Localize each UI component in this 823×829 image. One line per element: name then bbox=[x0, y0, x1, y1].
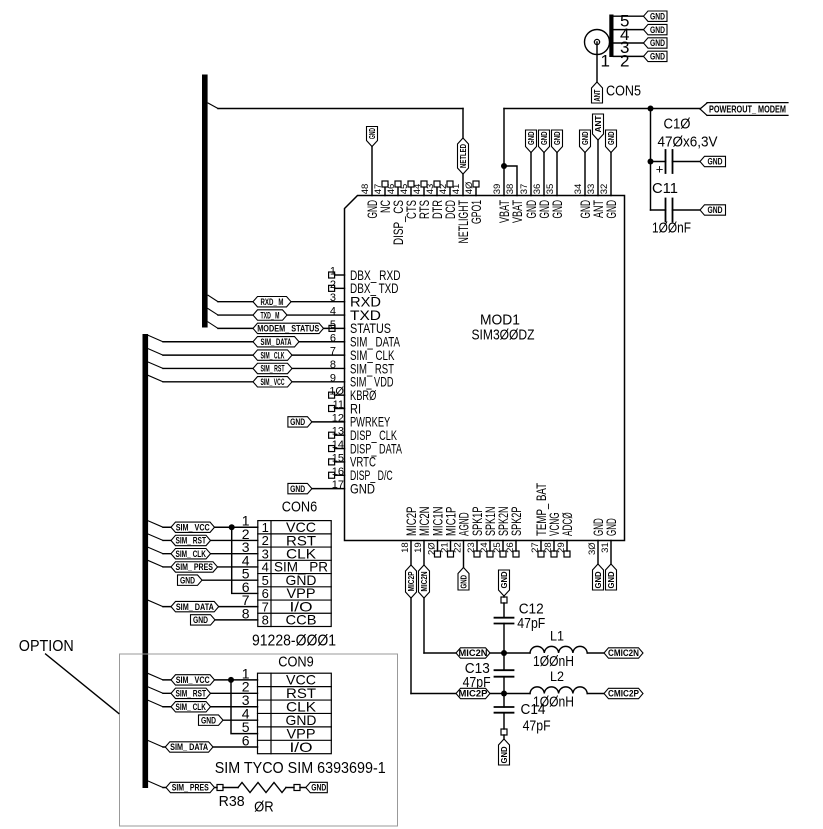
wire CON5 shield bbox=[614, 29, 644, 31]
svg-text:39: 39 bbox=[492, 184, 503, 195]
pin 18 MIC2P bbox=[400, 507, 419, 553]
bus entry RXD_M bbox=[208, 295, 218, 302]
wire VBAT pin 39 bbox=[503, 109, 505, 196]
svg-text:SIM_ RST: SIM_ RST bbox=[176, 689, 207, 699]
pin 25 SPK2N bbox=[492, 507, 511, 558]
inductor L1 bbox=[530, 646, 587, 653]
net flag SIM_PRES R38 bbox=[166, 782, 215, 792]
junction VBAT bbox=[501, 163, 507, 169]
net flag SIM_DATA CON6 bbox=[171, 601, 219, 611]
pin 41 NETLIGHT bbox=[451, 184, 471, 244]
svg-text:47pF: 47pF bbox=[523, 718, 551, 735]
bus entry SIM_CLK bbox=[148, 349, 163, 356]
bus entry CON6 pin4 bbox=[148, 560, 163, 567]
pin 33 ANT bbox=[586, 184, 606, 218]
svg-text:L2: L2 bbox=[550, 668, 564, 684]
power flag GND CON5 bbox=[644, 24, 668, 34]
net flag NETLED bbox=[458, 138, 469, 174]
net flag RXD_M bbox=[253, 297, 291, 307]
svg-text:1ØØnF: 1ØØnF bbox=[652, 220, 691, 237]
svg-text:C14: C14 bbox=[521, 701, 546, 718]
wire CON5 pin1 to ANT bbox=[596, 42, 598, 82]
inductor L2 bbox=[530, 687, 587, 694]
power flag GND pin 30 bbox=[593, 564, 604, 590]
svg-text:SIM_ VCC: SIM_ VCC bbox=[261, 377, 285, 387]
power flag GND bbox=[552, 130, 563, 153]
wire GND pin 17 bbox=[312, 488, 345, 490]
svg-text:GND: GND bbox=[350, 480, 375, 496]
svg-text:14: 14 bbox=[332, 439, 344, 451]
svg-text:GND: GND bbox=[290, 417, 305, 427]
svg-text:GND: GND bbox=[603, 200, 619, 219]
pin 20 MIC1N bbox=[427, 507, 446, 558]
resistor R38 bbox=[238, 783, 286, 793]
capacitor C11 label bbox=[652, 180, 691, 237]
wire CON5 shield bbox=[614, 15, 644, 17]
svg-text:27: 27 bbox=[530, 542, 541, 553]
svg-text:GND: GND bbox=[603, 518, 619, 536]
power flag GND bbox=[580, 130, 591, 153]
svg-text:2: 2 bbox=[620, 52, 629, 71]
pin 23 SPK1P bbox=[466, 507, 485, 558]
wire CON6 pin7 SIM_DATA bbox=[163, 606, 258, 608]
svg-text:4Ø: 4Ø bbox=[464, 181, 475, 194]
wire pin 48 to GND bbox=[371, 147, 373, 196]
svg-text:GND: GND bbox=[650, 11, 665, 21]
junction C10 bbox=[648, 159, 654, 165]
svg-text:SIM_ PRES: SIM_ PRES bbox=[172, 783, 209, 793]
svg-text:GND: GND bbox=[500, 746, 509, 763]
svg-text:29: 29 bbox=[556, 542, 567, 553]
wire NETLED net bbox=[218, 109, 463, 196]
pin 3 RXD bbox=[330, 292, 381, 309]
svg-text:GND: GND bbox=[527, 131, 536, 145]
net flag SIM_VCC bbox=[253, 377, 292, 387]
bus modem signals bbox=[202, 75, 208, 328]
wire SIM_CLK bbox=[163, 354, 345, 356]
svg-text:45: 45 bbox=[399, 184, 410, 195]
svg-text:C1Ø: C1Ø bbox=[664, 116, 691, 133]
wire GND pin bbox=[556, 153, 558, 196]
net flag SIM_DATA CON9 bbox=[165, 742, 213, 752]
wire CON6 pin1 SIM_VCC bbox=[163, 526, 258, 528]
svg-text:GND: GND bbox=[607, 571, 616, 588]
svg-text:R38: R38 bbox=[219, 793, 245, 810]
svg-text:MODEM_ STATUS: MODEM_ STATUS bbox=[257, 324, 319, 334]
svg-text:ADCØ: ADCØ bbox=[559, 512, 575, 536]
net flag SIM_PRES CON6 bbox=[171, 562, 218, 572]
power flag GND CON6 pin5 bbox=[178, 575, 203, 585]
wire VBAT pin 38 branch bbox=[504, 166, 517, 196]
wire R38 left lead bbox=[223, 787, 238, 789]
pin 15 VRTC bbox=[329, 452, 376, 469]
svg-text:13: 13 bbox=[332, 426, 344, 438]
wire CON9 VPP tie bbox=[231, 680, 258, 734]
pin 48 GND bbox=[360, 184, 380, 219]
no-connect square R38 right bbox=[294, 785, 300, 791]
connector CON5 label bbox=[606, 83, 641, 100]
wire L1 to CMIC2N bbox=[587, 652, 604, 654]
svg-text:GND: GND bbox=[650, 38, 665, 48]
wire CON9 pin1 SIM_VCC bbox=[163, 679, 258, 681]
wire pin 22 AGND bbox=[463, 541, 465, 568]
svg-text:2Ø: 2Ø bbox=[427, 542, 438, 555]
svg-text:GND: GND bbox=[708, 205, 723, 215]
svg-text:43: 43 bbox=[425, 184, 436, 195]
svg-text:SIM_ DATA: SIM_ DATA bbox=[170, 742, 208, 752]
pin 31 GND bbox=[600, 518, 619, 553]
net flag ANT CON5 bbox=[592, 82, 603, 103]
net flag SIM_VCC CON9 bbox=[171, 675, 215, 685]
wire CON9 pin3 bbox=[163, 706, 258, 708]
net flag SIM_RST bbox=[253, 363, 292, 373]
svg-text:GPO1: GPO1 bbox=[468, 200, 484, 224]
svg-text:15: 15 bbox=[332, 452, 344, 464]
wire TXD_M bbox=[218, 314, 345, 316]
svg-text:25: 25 bbox=[492, 542, 503, 553]
svg-text:2: 2 bbox=[330, 279, 336, 291]
wire SIM_RST bbox=[163, 367, 345, 369]
connector CON6 part number bbox=[252, 633, 336, 650]
connector CON9 pin table text bbox=[286, 672, 317, 755]
connector CON9 external pin numbers bbox=[242, 665, 250, 748]
svg-text:19: 19 bbox=[413, 542, 424, 553]
power flag GND pin 12 bbox=[288, 417, 312, 427]
wire SIM_DATA bbox=[163, 341, 345, 343]
net flag SIM_CLK CON9 bbox=[171, 702, 211, 712]
connector CON6 body bbox=[258, 521, 331, 627]
wire GND pin bbox=[530, 153, 532, 196]
svg-text:MIC2N: MIC2N bbox=[459, 648, 488, 658]
wire SIM_VCC bbox=[163, 381, 345, 383]
pin 46 DISP_ CS bbox=[386, 181, 406, 245]
svg-text:8: 8 bbox=[262, 613, 269, 628]
pin 6 SIM_ DATA bbox=[330, 332, 401, 349]
capacitor C11 bbox=[651, 199, 701, 222]
pin 24 SPK1N bbox=[479, 507, 498, 558]
svg-text:24: 24 bbox=[479, 542, 490, 553]
svg-text:21: 21 bbox=[440, 542, 451, 553]
net flag CMIC2P bbox=[604, 688, 643, 698]
svg-text:34: 34 bbox=[573, 184, 584, 195]
pin 2 DBX_ TXD bbox=[329, 279, 399, 296]
bus entry SIM_VCC bbox=[148, 375, 163, 382]
svg-text:MIC2P: MIC2P bbox=[459, 689, 488, 699]
svg-text:28: 28 bbox=[543, 542, 554, 553]
wire CON6 pin8 GND bbox=[215, 619, 258, 621]
svg-text:1: 1 bbox=[330, 266, 336, 278]
svg-text:47pF: 47pF bbox=[517, 615, 545, 632]
pin 17 GND bbox=[332, 479, 375, 496]
net flag MODEM_STATUS bbox=[253, 323, 324, 333]
module MOD1 outline bbox=[345, 196, 625, 541]
svg-text:GND: GND bbox=[553, 131, 562, 145]
svg-text:SIM_ CLK: SIM_ CLK bbox=[261, 350, 285, 360]
wire CON9 pin6 SIM_DATA bbox=[163, 746, 258, 748]
bus entry SIM_RST bbox=[148, 362, 163, 369]
module MOD1 name bbox=[472, 312, 535, 344]
svg-text:CCB: CCB bbox=[286, 612, 317, 628]
svg-text:48: 48 bbox=[360, 184, 371, 195]
pin 21 MIC1P bbox=[440, 507, 459, 558]
svg-text:6: 6 bbox=[242, 732, 250, 748]
svg-text:31: 31 bbox=[600, 542, 611, 553]
pin 42 DCD bbox=[438, 181, 458, 219]
pin 32 GND bbox=[599, 184, 619, 219]
net flag SIM_DATA bbox=[253, 337, 299, 347]
resistor R38 label bbox=[219, 793, 274, 816]
pin 1 DBX_ RXD bbox=[329, 266, 401, 283]
connector CON9 title bbox=[278, 654, 314, 671]
svg-text:16: 16 bbox=[332, 466, 344, 478]
svg-text:MIC2P: MIC2P bbox=[407, 571, 416, 592]
power flag GND bbox=[526, 130, 537, 153]
connector CON5 shield bar bbox=[609, 15, 613, 58]
bus entry CON9 pin6 bbox=[148, 741, 163, 748]
svg-text:35: 35 bbox=[545, 184, 556, 195]
svg-text:37: 37 bbox=[519, 184, 530, 195]
wire MODEM_STATUS bbox=[218, 325, 345, 331]
bus entry CON6 pin3 bbox=[148, 547, 163, 554]
bus entry CON6 SIM_VCC bbox=[148, 521, 163, 528]
pin 28 VCNG bbox=[543, 512, 562, 557]
svg-text:22: 22 bbox=[453, 542, 464, 553]
svg-text:SIM_ CLK: SIM_ CLK bbox=[176, 549, 207, 559]
net flag SIM_CLK bbox=[253, 350, 292, 360]
pin 44 RTS bbox=[412, 181, 432, 219]
net flag SIM_CLK CON6 bbox=[171, 549, 211, 559]
power flag GND CON6 pin8 bbox=[191, 615, 216, 625]
wire R38 right lead bbox=[286, 787, 294, 789]
svg-text:C11: C11 bbox=[652, 180, 678, 197]
pin 37 GND bbox=[519, 184, 539, 219]
bus SIM signals bbox=[143, 334, 149, 788]
option pointer line bbox=[46, 654, 119, 714]
wire pin 31 GND bbox=[610, 541, 612, 565]
capacitor C13 label bbox=[463, 660, 491, 691]
svg-text:41: 41 bbox=[451, 184, 462, 195]
pin 29 ADC0 bbox=[556, 512, 575, 557]
svg-text:GND: GND bbox=[180, 575, 195, 585]
no-connect square C14 bottom bbox=[501, 729, 507, 735]
svg-text:1Ø: 1Ø bbox=[329, 386, 344, 398]
svg-text:38: 38 bbox=[505, 184, 516, 195]
connector CON5 pin numbers bbox=[601, 12, 630, 71]
pin 27 TEMP_ BAT bbox=[530, 483, 549, 557]
pin 9 SIM_ VDD bbox=[330, 372, 394, 389]
pin 43 DTR bbox=[425, 181, 445, 219]
wire VBAT horizontal bbox=[504, 108, 700, 110]
svg-text:POWEROUT_ MODEM: POWEROUT_ MODEM bbox=[709, 104, 786, 115]
net flag SIM_RST CON6 bbox=[171, 535, 211, 545]
net flag SIM_RST CON9 bbox=[171, 688, 211, 698]
svg-text:23: 23 bbox=[466, 542, 477, 553]
wire L2 to CMIC2P bbox=[587, 693, 604, 695]
no-connect square C12 top bbox=[501, 597, 507, 603]
pin 35 GND bbox=[545, 184, 565, 219]
capacitor C12 bbox=[495, 618, 514, 653]
bus entry MODEM_STATUS bbox=[208, 322, 218, 329]
bus entry SIM_DATA bbox=[148, 335, 163, 342]
pin 38 VBAT bbox=[505, 184, 525, 223]
svg-text:SIM3ØØDZ: SIM3ØØDZ bbox=[472, 326, 535, 343]
net flag MIC2P bbox=[456, 688, 490, 698]
bus entry TXD_M bbox=[208, 309, 218, 316]
svg-text:GND: GND bbox=[500, 571, 509, 588]
wire MIC2P row bbox=[490, 693, 530, 695]
junction MIC2P row bbox=[501, 691, 507, 697]
wire MIC2N row bbox=[490, 652, 530, 654]
svg-text:CON6: CON6 bbox=[282, 499, 318, 516]
svg-text:NETLED: NETLED bbox=[459, 144, 468, 168]
connector CON9 part number bbox=[215, 760, 386, 777]
power flag GND bbox=[606, 130, 617, 153]
svg-text:RXD_ M: RXD_ M bbox=[261, 297, 284, 307]
power flag GND C10 bbox=[700, 156, 726, 166]
power flag GND pin 22 bbox=[458, 568, 469, 591]
connector CON6 external pin numbers bbox=[242, 513, 250, 622]
pin 11 RI bbox=[329, 399, 361, 416]
svg-text:47Øx6,3V: 47Øx6,3V bbox=[658, 134, 718, 151]
wire VBAT vertical bbox=[650, 109, 652, 211]
pin 30 GND bbox=[587, 518, 606, 555]
wire SIM_PRES to R38 bbox=[163, 787, 217, 789]
svg-text:GND: GND bbox=[650, 52, 665, 62]
svg-text:GND: GND bbox=[650, 25, 665, 35]
wire C14 to GND bbox=[503, 735, 505, 739]
junction CON6 VCC-VPP bbox=[229, 524, 235, 530]
inductor L1 label bbox=[533, 628, 574, 671]
pin 45 CTS bbox=[399, 181, 419, 219]
wire MIC2N drop bbox=[424, 541, 456, 654]
svg-text:33: 33 bbox=[586, 184, 597, 195]
svg-text:SPK2P: SPK2P bbox=[508, 507, 524, 537]
svg-text:GND: GND bbox=[368, 128, 377, 139]
power flag GND CON5 bbox=[644, 11, 668, 21]
pin 22 AGND bbox=[453, 512, 472, 552]
power flag GND pin 31 bbox=[606, 564, 617, 590]
svg-text:SIM_ VCC: SIM_ VCC bbox=[176, 522, 210, 532]
option region box bbox=[120, 654, 398, 826]
junction CON9 VCC-VPP bbox=[228, 677, 234, 683]
pin 8 SIM_ RST bbox=[330, 359, 394, 376]
svg-text:ØR: ØR bbox=[254, 799, 274, 816]
svg-text:GND: GND bbox=[290, 484, 305, 494]
wire GND pin bbox=[610, 153, 612, 196]
svg-text:GND: GND bbox=[708, 157, 723, 167]
svg-text:CON5: CON5 bbox=[606, 83, 641, 100]
pin 10 KBR0 bbox=[329, 386, 377, 403]
pin 7 SIM_ CLK bbox=[330, 346, 395, 363]
power flag GND R38 bbox=[306, 782, 328, 792]
svg-text:3Ø: 3Ø bbox=[587, 542, 598, 555]
power flag GND CON9 pin4 bbox=[199, 715, 224, 725]
svg-text:ANT: ANT bbox=[594, 115, 603, 132]
capacitor C13 bbox=[495, 653, 514, 694]
svg-text:11: 11 bbox=[333, 399, 344, 411]
bus entry CON9 SIM_VCC bbox=[148, 673, 163, 680]
wire pin 30 GND bbox=[597, 541, 599, 565]
svg-text:SIM_ DATA: SIM_ DATA bbox=[261, 337, 292, 347]
svg-text:GND: GND bbox=[607, 131, 616, 145]
svg-text:SIM_ RST: SIM_ RST bbox=[176, 536, 207, 546]
power flag GND bbox=[539, 130, 550, 153]
wire CON5 shield bbox=[614, 55, 644, 57]
bus entry CON9 pin3 bbox=[148, 700, 163, 707]
wire CON9 pin4 GND bbox=[223, 719, 258, 721]
wire GND pin 12 bbox=[312, 421, 345, 423]
wire CON6 pin4 bbox=[163, 566, 258, 568]
svg-text:GND: GND bbox=[540, 131, 549, 145]
svg-text:26: 26 bbox=[505, 542, 516, 553]
svg-text:GND: GND bbox=[581, 131, 590, 145]
bus entry SIM_PRES bbox=[148, 781, 163, 788]
svg-text:+: + bbox=[656, 162, 664, 177]
svg-text:47: 47 bbox=[373, 184, 384, 195]
pin 19 MIC2N bbox=[413, 507, 432, 553]
net flag CMIC2N bbox=[604, 648, 643, 658]
wire CON6 VPP tie bbox=[232, 527, 258, 593]
pin 40 GPO1 bbox=[464, 181, 484, 224]
net flag POWEROUT_MODEM bbox=[700, 103, 788, 116]
net flag MIC2N bbox=[456, 648, 490, 658]
option label bbox=[19, 638, 74, 655]
svg-text:SIM_ PRES: SIM_ PRES bbox=[176, 562, 214, 572]
svg-text:CMIC2P: CMIC2P bbox=[608, 689, 639, 699]
pin 36 GND bbox=[532, 184, 552, 219]
pin 5 STATUS bbox=[330, 319, 391, 336]
pin 4 TXD bbox=[330, 306, 381, 323]
power flag GND below C14 bbox=[499, 739, 510, 765]
net flag MIC2P vertical bbox=[406, 565, 417, 598]
pin 39 VBAT bbox=[492, 184, 512, 223]
connector CON9 body bbox=[258, 673, 332, 754]
pin 12 PWRKEY bbox=[332, 412, 391, 429]
svg-text:TXD_ M: TXD_ M bbox=[261, 310, 280, 320]
power flag GND C11 bbox=[700, 205, 726, 215]
bus entry CON6 pin7 bbox=[148, 600, 163, 607]
power flag GND above C12 bbox=[499, 570, 510, 596]
capacitor C12 label bbox=[517, 601, 545, 633]
svg-text:SIM TYCO SIM 6393699-1: SIM TYCO SIM 6393699-1 bbox=[215, 760, 386, 777]
svg-text:SIM_ VCC: SIM_ VCC bbox=[176, 675, 210, 685]
capacitor C14 bbox=[495, 694, 514, 730]
no-connect square R38 left bbox=[217, 785, 223, 791]
wire CON5 shield bbox=[614, 42, 644, 44]
pin 34 GND bbox=[573, 184, 593, 219]
power flag GND pin 48 bbox=[367, 127, 378, 147]
svg-text:GND: GND bbox=[459, 575, 468, 589]
wire GND pin bbox=[584, 153, 586, 196]
svg-text:MIC2N: MIC2N bbox=[420, 571, 429, 591]
connector CON5 coax body bbox=[585, 30, 610, 55]
svg-text:GND: GND bbox=[311, 783, 326, 793]
wire GND to C12 bbox=[503, 596, 505, 618]
inductor L2 label bbox=[533, 668, 574, 711]
svg-text:GND: GND bbox=[201, 715, 216, 725]
net flag ANT pin 33 bbox=[593, 114, 604, 140]
wire ANT pin 33 bbox=[597, 140, 599, 196]
wire GND pin bbox=[543, 153, 545, 196]
svg-text:ANT: ANT bbox=[593, 89, 602, 101]
bus entry CON9 pin2 bbox=[148, 687, 163, 694]
svg-text:GND: GND bbox=[193, 615, 208, 625]
svg-text:91228-ØØØ1: 91228-ØØØ1 bbox=[252, 633, 336, 650]
pin 14 DISP_ DATA bbox=[329, 439, 403, 456]
svg-text:I/O: I/O bbox=[290, 739, 313, 755]
pin 47 NC bbox=[373, 181, 393, 213]
svg-text:SIM_ CLK: SIM_ CLK bbox=[176, 702, 207, 712]
